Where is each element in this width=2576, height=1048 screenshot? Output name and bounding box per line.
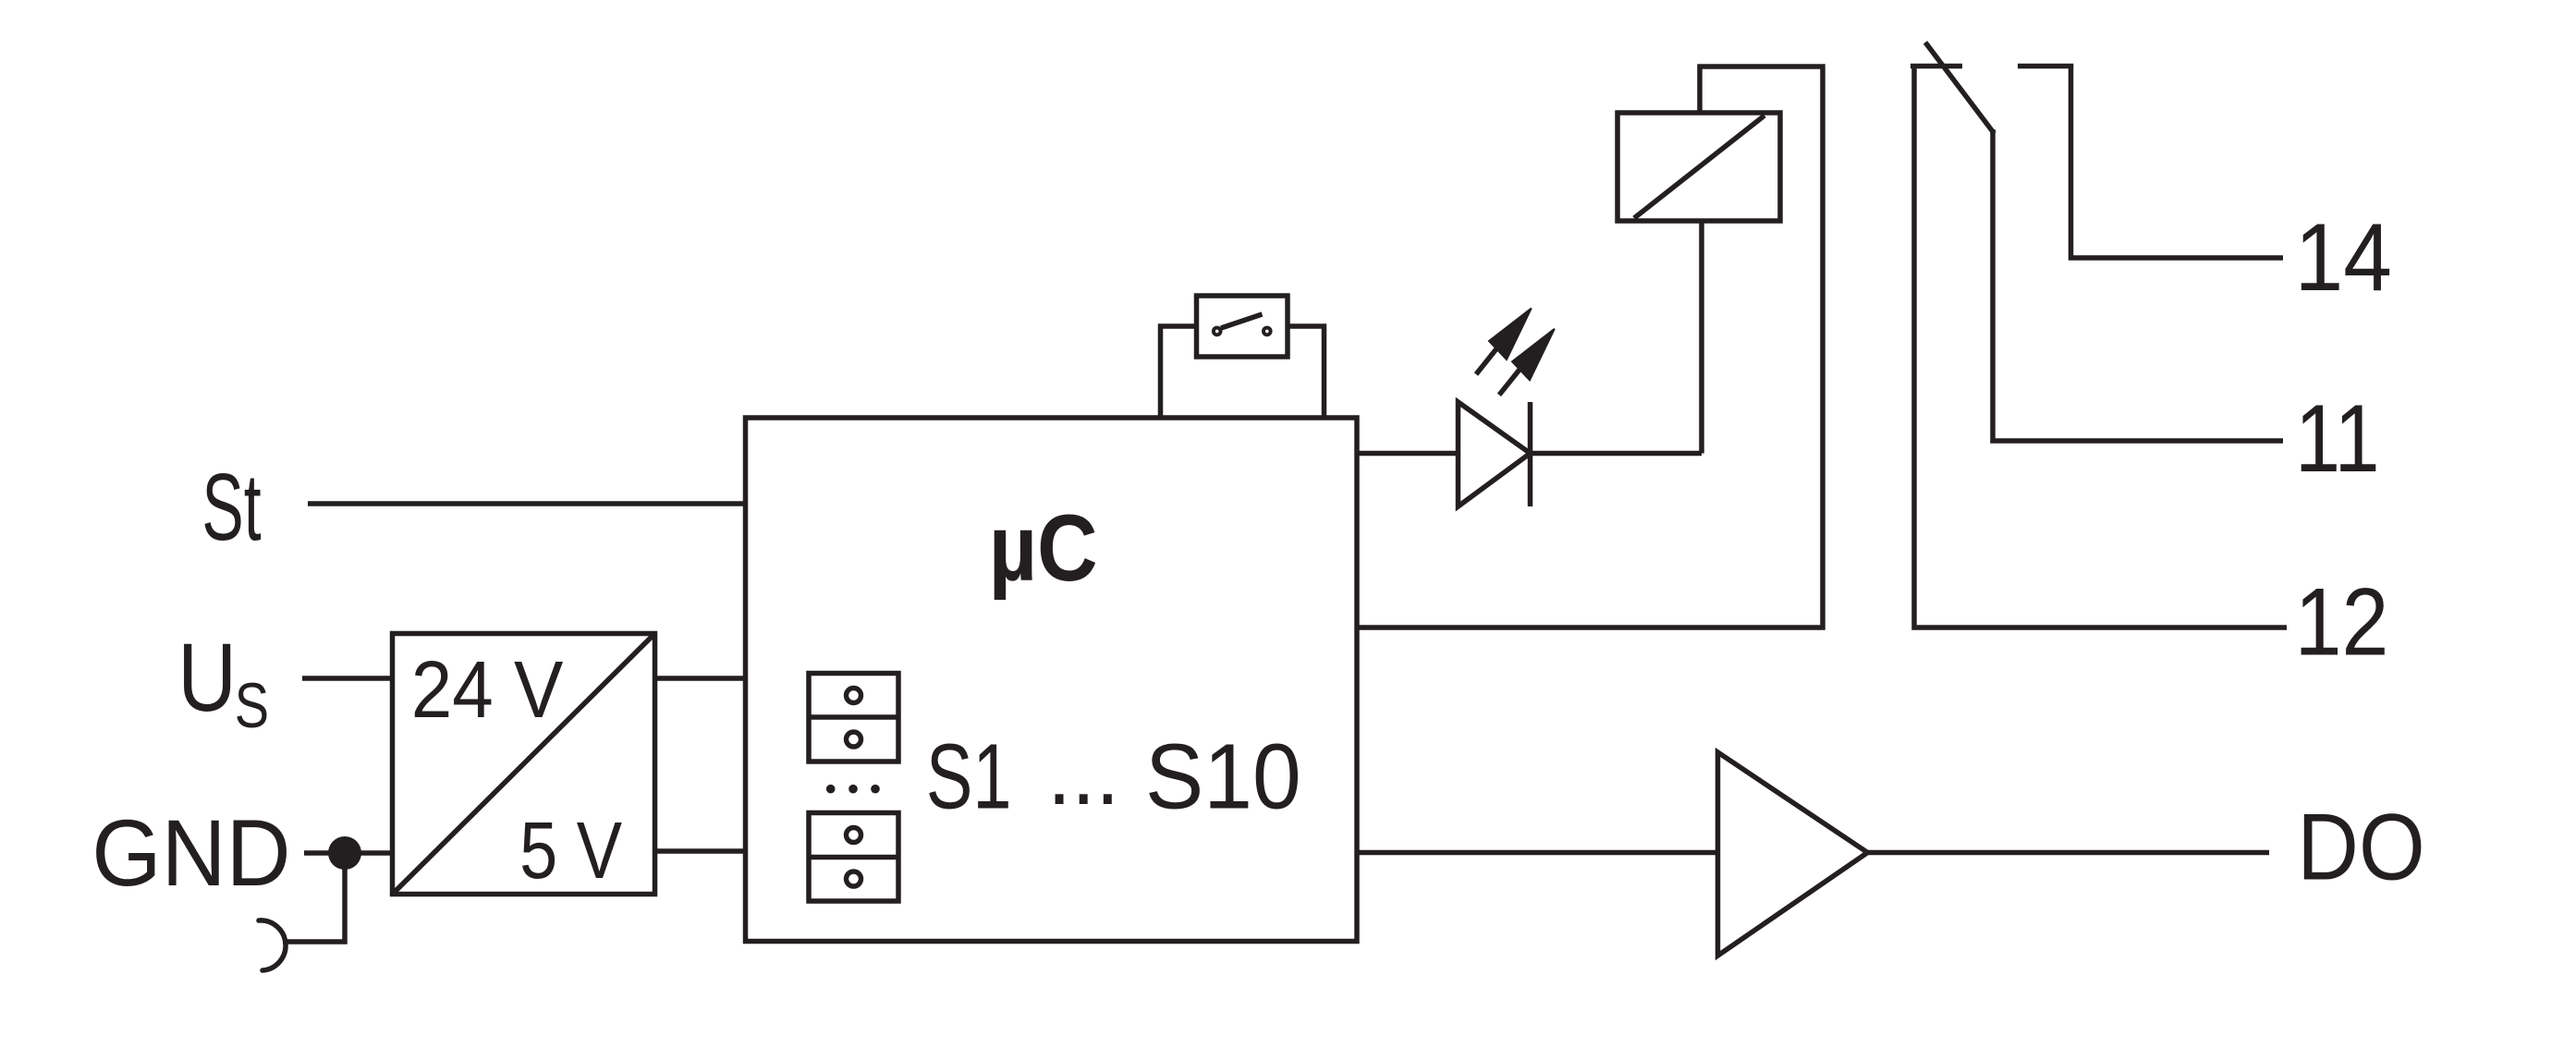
wire: [1288, 326, 1325, 418]
microcontroller U2: [746, 418, 1358, 942]
ellipsis dots: [826, 785, 880, 794]
svg-text:µC: µC: [989, 496, 1098, 601]
relay coil K1: [1618, 113, 1780, 221]
terminal 14: [2295, 204, 2392, 311]
svg-text:14: 14: [2295, 204, 2392, 311]
svg-text:5 V: 5 V: [519, 806, 622, 896]
svg-text:S10: S10: [1145, 725, 1301, 828]
terminal DO: [2297, 794, 2424, 899]
amplifier driver: [1718, 752, 1868, 956]
svg-text:24 V: 24 V: [411, 644, 564, 735]
power supply U1 24V/5V converter: [393, 634, 655, 896]
svg-text:11: 11: [2295, 385, 2380, 492]
svg-text:GND: GND: [92, 801, 290, 907]
wire: [283, 853, 345, 942]
svg-text:S1: S1: [926, 725, 1012, 828]
LED light arrows: [1476, 309, 1555, 396]
value label 5 V: [519, 806, 622, 896]
wire: [1357, 67, 1823, 628]
DIP switch block S1: [809, 674, 898, 762]
label µC: [989, 496, 1098, 601]
DIP switch block S10: [809, 813, 898, 902]
terminal 11: [2295, 385, 2380, 492]
node St: [201, 455, 261, 560]
wire: [1993, 129, 2283, 441]
wire: [655, 848, 746, 854]
svg-text:DO: DO: [2297, 794, 2424, 899]
relay contact K1: [1911, 43, 2073, 134]
pushbutton switch S: [1197, 296, 1288, 357]
wire: [1357, 850, 1718, 856]
wire: [308, 501, 746, 506]
wire: [1699, 221, 1704, 454]
svg-text:St: St: [201, 455, 261, 560]
node GND: [92, 801, 290, 907]
svg-text:...: ...: [1047, 720, 1119, 823]
svg-text:12: 12: [2295, 567, 2389, 676]
wire: [304, 850, 393, 856]
wire: [1914, 67, 2287, 628]
svg-text:U: U: [177, 623, 237, 732]
wire: [655, 676, 746, 681]
wire: [1868, 850, 2270, 856]
wire: [1161, 326, 1197, 418]
svg-text:S: S: [235, 670, 269, 741]
node Us: [177, 623, 269, 742]
wire: [2071, 67, 2284, 259]
label S1 ... S10: [926, 720, 1301, 828]
wire: [1531, 451, 1703, 457]
junction: [328, 836, 361, 870]
wire: [1357, 451, 1459, 457]
terminal 12: [2295, 567, 2389, 676]
wire: [302, 676, 393, 681]
socket contact: [259, 920, 286, 970]
LED D1: [1459, 402, 1531, 506]
value label 24 V: [411, 644, 564, 735]
